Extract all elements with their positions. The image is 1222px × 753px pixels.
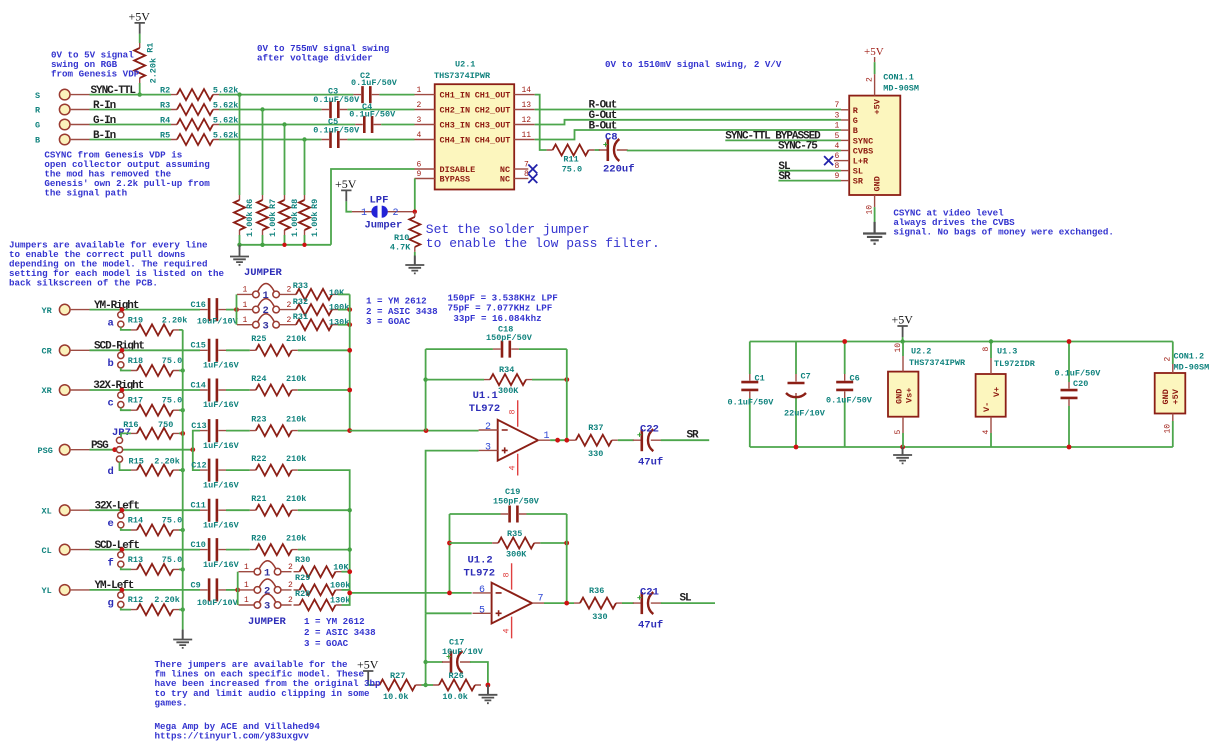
resistor R29 [294, 573, 351, 595]
svg-text:U2.2: U2.2 [911, 347, 931, 357]
node bottom jumper tap [235, 588, 240, 593]
svg-text:10uF/10V: 10uF/10V [442, 647, 484, 657]
svg-text:C13: C13 [191, 421, 206, 431]
node U1.3 rail [989, 339, 993, 343]
svg-text:0.1uF/50V: 0.1uF/50V [826, 396, 873, 406]
svg-text:3 = GOAC: 3 = GOAC [304, 638, 349, 649]
connector pin G [35, 119, 90, 131]
jumper 1 (left bank) [239, 561, 294, 580]
node PSG jumpers junction [112, 447, 117, 452]
pin 4 U1.3 bottom [982, 417, 991, 447]
svg-text:750: 750 [158, 420, 173, 430]
svg-text:R11: R11 [563, 155, 578, 165]
svg-text:JUMPER: JUMPER [248, 616, 287, 628]
pin 10 GND (bottom) [866, 176, 883, 214]
power rail bottom (power section) [750, 446, 1173, 448]
svg-text:4: 4 [835, 142, 840, 151]
svg-text:6: 6 [835, 152, 840, 161]
svg-text:330: 330 [592, 612, 607, 622]
svg-text:R31: R31 [293, 312, 308, 322]
svg-text:+5V: +5V [873, 98, 883, 114]
svg-text:CVBS: CVBS [853, 147, 873, 157]
wire C15 to R25 [226, 349, 250, 351]
ground CON1.1 [863, 222, 886, 244]
jumper a pads [108, 312, 124, 330]
svg-text:R2: R2 [160, 86, 170, 96]
wire BYPASS down to LPF node [414, 179, 416, 212]
svg-text:R6: R6 [245, 199, 255, 209]
svg-text:6: 6 [417, 160, 422, 169]
svg-text:7: 7 [538, 594, 544, 605]
svg-text:R1: R1 [146, 43, 156, 53]
wire C8 to CVBS pin (SYNC-75 net) [627, 150, 841, 152]
svg-text:75.0: 75.0 [162, 515, 182, 525]
capacitor C14 [191, 379, 240, 411]
jumper 3 (left bank) [239, 594, 294, 613]
resistor R4 [160, 116, 238, 131]
svg-text:75.0: 75.0 [562, 165, 582, 175]
svg-text:R17: R17 [128, 396, 143, 406]
wire R19 to bus [179, 329, 183, 331]
svg-text:R3: R3 [160, 101, 170, 111]
svg-text:SYNC-TTL BYPASSED: SYNC-TTL BYPASSED [725, 131, 821, 143]
svg-text:d: d [108, 466, 114, 478]
svg-text:B: B [35, 136, 40, 146]
svg-text:130k: 130k [329, 317, 349, 327]
node YR jumper-a junction [120, 307, 125, 312]
svg-text:YL: YL [42, 586, 52, 596]
wire R-Out [535, 109, 841, 111]
svg-text:JUMPER: JUMPER [244, 267, 283, 279]
svg-text:1uF/16V: 1uF/16V [203, 361, 240, 371]
capacitor C18 [486, 324, 533, 357]
svg-text:DISABLE: DISABLE [440, 165, 476, 175]
svg-text:10.0k: 10.0k [383, 692, 409, 702]
svg-text:2.20k: 2.20k [162, 315, 188, 325]
connector pin YR [42, 304, 90, 315]
svg-text:0.1uF/50V: 0.1uF/50V [728, 398, 775, 408]
capacitor C13 [191, 419, 239, 451]
svg-text:e: e [108, 518, 114, 530]
wire R36 to C21 [622, 602, 634, 604]
wire G row to R4 [90, 124, 172, 126]
wire C21 to SL [661, 602, 715, 604]
svg-text:3: 3 [264, 601, 270, 613]
svg-text:1: 1 [243, 316, 248, 325]
svg-text:U1.2: U1.2 [468, 555, 493, 567]
capacitor C4 [349, 102, 396, 133]
svg-text:R4: R4 [160, 116, 170, 126]
wire YL row to C9 [90, 589, 201, 591]
connector pin YL [42, 585, 90, 596]
svg-text:C17: C17 [449, 637, 464, 647]
node feedback left junction U1.1 [424, 428, 429, 433]
svg-text:2.20k: 2.20k [154, 595, 180, 605]
svg-text:7: 7 [835, 101, 840, 110]
svg-text:C11: C11 [191, 501, 206, 511]
pin 3 G [835, 111, 858, 126]
svg-text:R36: R36 [589, 586, 604, 596]
node C20 bottom rail [1067, 445, 1072, 450]
svg-text:9: 9 [417, 170, 422, 179]
wire G pulldown drop [284, 125, 286, 196]
svg-text:2: 2 [1164, 357, 1173, 362]
wire S pulldown drop [239, 95, 241, 195]
svg-text:from Genesis VDP: from Genesis VDP [51, 69, 140, 80]
svg-text:R32: R32 [293, 297, 308, 307]
wire C17 left [426, 661, 443, 663]
jumper 1 (right bank) [237, 283, 292, 302]
resistor R5 [160, 131, 238, 146]
wire +5V to CON1.1 pin2 [874, 62, 876, 74]
node G pulldown junction [282, 122, 286, 126]
svg-text:2.20k: 2.20k [154, 457, 180, 467]
svg-text:CH1_IN: CH1_IN [440, 91, 471, 101]
svg-text:1uF/16V: 1uF/16V [203, 400, 240, 410]
svg-text:100k: 100k [329, 302, 349, 312]
connector pin R [35, 104, 90, 116]
svg-text:PSG: PSG [38, 446, 53, 456]
svg-text:V-: V- [982, 402, 992, 412]
wire R17 to bus [179, 409, 183, 411]
node XL jumper-e junction [120, 508, 125, 513]
svg-text:47uf: 47uf [638, 619, 663, 631]
svg-text:C14: C14 [191, 380, 206, 390]
wire R14 to bus [179, 529, 183, 531]
wire R3 to C3 [219, 109, 321, 111]
svg-text:5: 5 [894, 430, 903, 435]
pin 3 CH3_IN [415, 116, 471, 131]
pin 13 CH2_OUT [475, 101, 535, 116]
svg-text:R25: R25 [251, 334, 266, 344]
resistor R20 [250, 534, 307, 556]
wire R29 to bus [342, 589, 350, 591]
wire C22 to SR [661, 439, 709, 441]
connector pin PSG [38, 444, 90, 455]
svg-text:after voltage divider: after voltage divider [257, 53, 373, 64]
node bus R14 [181, 528, 185, 532]
node bus R17 [181, 408, 185, 412]
capacitor C1 [728, 342, 775, 448]
capacitor C16 [191, 298, 239, 326]
svg-text:47uf: 47uf [638, 457, 663, 469]
wire R24 to bus [298, 389, 350, 391]
svg-text:S: S [35, 91, 40, 101]
svg-text:C15: C15 [191, 341, 206, 351]
wire +5V to rail [902, 337, 904, 342]
wire PSG up to C13 [193, 431, 200, 450]
svg-text:4: 4 [502, 628, 512, 633]
svg-text:210k: 210k [286, 534, 306, 544]
node bus R20 [348, 547, 352, 551]
resistor R33 [290, 281, 345, 300]
resistor R1 [134, 43, 158, 84]
ground pulldown rail [230, 247, 249, 265]
svg-text:B-Out: B-Out [589, 120, 617, 132]
svg-text:C1: C1 [755, 374, 765, 384]
pin 14 CH1_OUT [475, 86, 535, 101]
svg-text:150pF/50V: 150pF/50V [486, 333, 533, 343]
svg-text:1: 1 [264, 567, 270, 579]
resistor R37 [570, 423, 618, 459]
svg-text:a: a [108, 317, 115, 329]
wire C4 to pin3 [381, 124, 414, 126]
node C7 bottom rail [794, 445, 799, 450]
capacitor C3 [313, 87, 360, 118]
svg-text:3: 3 [485, 443, 491, 454]
svg-text:1.00k: 1.00k [310, 211, 320, 237]
svg-text:C9: C9 [191, 580, 201, 590]
svg-text:c: c [108, 398, 114, 410]
resistor R2 [160, 86, 238, 101]
ground R10 [405, 256, 424, 274]
wire rail to DISABLE [331, 169, 415, 245]
node rail R6 [237, 243, 241, 247]
wire C16 to jumper group [226, 309, 237, 311]
wire SL to connector [778, 170, 841, 172]
wire B pulldown drop [304, 140, 306, 196]
wire feedback left vertical U1.1 [425, 349, 427, 431]
wire jumper c to R17 [121, 408, 131, 411]
svg-text:+5V: +5V [129, 10, 151, 24]
svg-text:R: R [853, 106, 859, 116]
op-amp U1.2 TL972 [464, 555, 545, 639]
pin 6 DISABLE [415, 160, 476, 175]
svg-text:75.0: 75.0 [162, 396, 182, 406]
wire summing bus to U1.1 pin2 [350, 430, 479, 432]
wire +5V to LPF pin1 [346, 201, 352, 211]
connector pin S [35, 89, 90, 101]
svg-text:4: 4 [417, 131, 422, 140]
svg-text:2: 2 [288, 581, 293, 590]
wire R16 to bus [179, 432, 183, 434]
connector pin XR [42, 385, 90, 397]
capacitor C10 [191, 538, 240, 570]
wire R31 to bus [338, 324, 350, 326]
wire bias rail to C17 [425, 613, 427, 685]
node bus R18 [181, 368, 185, 372]
node R26 right [486, 683, 491, 688]
svg-text:NC: NC [500, 175, 510, 185]
capacitor C19 [493, 487, 540, 523]
wire B-Out [535, 130, 841, 140]
svg-text:B: B [853, 126, 858, 136]
node bus R31 [347, 322, 352, 327]
svg-text:Set the solder jumper: Set the solder jumper [426, 222, 590, 237]
svg-text:CH3_IN: CH3_IN [440, 121, 471, 131]
svg-text:1: 1 [243, 286, 248, 295]
wire R20 to bus [298, 549, 350, 551]
wire PSG row [90, 449, 193, 451]
node C20 top rail [1067, 339, 1072, 344]
svg-text:C22: C22 [640, 424, 659, 436]
node bus R16 [180, 431, 185, 436]
svg-text:https://tinyurl.com/y83uxgvv: https://tinyurl.com/y83uxgvv [155, 730, 310, 741]
capacitor C2 [351, 71, 398, 103]
svg-text:XL: XL [42, 506, 52, 516]
power +5V (CON1.1) [864, 46, 884, 62]
node B pulldown junction [302, 137, 306, 141]
wire R33 to bus [338, 293, 350, 295]
pin 9 SR [835, 172, 864, 187]
wire R15 to bus [179, 469, 183, 471]
wire C13 to R23 [226, 430, 250, 432]
wire R37 to C22 [618, 439, 634, 441]
svg-text:R33: R33 [293, 281, 308, 291]
node C6 top rail [842, 339, 847, 344]
svg-text:U2.1: U2.1 [455, 60, 475, 70]
node bus R32 [347, 307, 352, 312]
jumper LPF (solder jumper) [352, 194, 415, 231]
wire C9 to bottom jumper group [226, 589, 238, 591]
capacitor C5 [313, 117, 360, 148]
svg-text:1 = YM 2612: 1 = YM 2612 [304, 616, 365, 627]
jumper c pads [108, 392, 124, 410]
svg-text:G: G [853, 116, 858, 126]
svg-text:CH2_OUT: CH2_OUT [475, 106, 511, 116]
wire SR to connector [778, 180, 841, 182]
svg-text:R22: R22 [251, 454, 266, 464]
pin 2 +5V (top) [866, 74, 883, 114]
pin 11 CH4_OUT [475, 131, 535, 146]
svg-text:R24: R24 [251, 374, 266, 384]
capacitor C7 [784, 342, 826, 448]
wire U1.1 pin3 to bias rail [426, 451, 479, 614]
svg-text:6: 6 [479, 585, 485, 596]
svg-text:11: 11 [522, 131, 532, 140]
svg-text:LPF: LPF [370, 194, 389, 206]
jumper 2 (left bank) [239, 579, 294, 598]
node bus R30 [347, 569, 352, 574]
wire R25 to bus [298, 349, 350, 351]
node YL jumper-g junction [120, 588, 125, 593]
capacitor C22 47uf [633, 424, 663, 469]
resistor R19 [128, 315, 188, 335]
svg-text:12: 12 [522, 116, 532, 125]
node bus end U1.2 pin6 [347, 591, 352, 596]
svg-text:2: 2 [866, 77, 875, 82]
svg-text:C12: C12 [191, 461, 206, 471]
wire R1 to SYNC row [139, 83, 141, 95]
pin 9 BYPASS [415, 170, 471, 185]
svg-text:3: 3 [835, 111, 840, 120]
wire R30 to bus [342, 571, 350, 573]
wire CH1_OUT down to R11 [535, 95, 547, 150]
connector pin B [35, 134, 90, 146]
svg-text:2: 2 [417, 101, 422, 110]
svg-text:CH4_OUT: CH4_OUT [475, 136, 511, 146]
wire R4 to C4 [219, 124, 355, 126]
svg-text:CON1.1: CON1.1 [883, 73, 914, 83]
wire R10 to ground [414, 252, 416, 257]
svg-text:TL972: TL972 [469, 403, 501, 415]
svg-text:10.0k: 10.0k [442, 692, 468, 702]
wire R28 elbow to bus [342, 590, 350, 605]
svg-text:NC: NC [500, 165, 510, 175]
svg-text:signal. No bags of money were: signal. No bags of money were exchanged. [893, 227, 1114, 238]
svg-text:1: 1 [361, 208, 367, 219]
svg-text:8: 8 [982, 347, 991, 352]
power +5V (LPF) [335, 177, 357, 201]
svg-text:CH3_OUT: CH3_OUT [475, 121, 511, 131]
resistor R28 [294, 589, 351, 610]
svg-text:10uF/10V: 10uF/10V [197, 317, 239, 327]
wire C11 to R21 [226, 509, 250, 511]
node R35 right [564, 541, 569, 546]
resistor R31 [290, 312, 349, 330]
svg-text:R34: R34 [499, 365, 514, 375]
svg-text:+5V: +5V [335, 177, 357, 191]
wire jumper a to R19 [121, 327, 131, 330]
svg-text:C21: C21 [640, 586, 659, 598]
wire R13 to bus [179, 568, 183, 570]
svg-text:C20: C20 [1073, 379, 1088, 389]
svg-text:1: 1 [243, 301, 248, 310]
wire SYNC-TTL BYPASSED [725, 139, 841, 141]
jumper JP7 pads [112, 427, 131, 453]
power +5V (power section) [892, 313, 914, 338]
pin 8 NC [500, 170, 537, 185]
svg-text:3: 3 [263, 320, 269, 332]
svg-text:L+R: L+R [853, 157, 869, 167]
svg-text:C6: C6 [850, 374, 860, 384]
node output U1.1 b [564, 438, 569, 443]
svg-text:13: 13 [522, 101, 532, 110]
svg-text:R8: R8 [290, 199, 300, 209]
resistor R15 [129, 457, 180, 476]
svg-text:R5: R5 [160, 131, 170, 141]
svg-text:3 = GOAC: 3 = GOAC [366, 316, 411, 327]
resistor R36 [574, 586, 622, 622]
node rail R8 [282, 243, 286, 247]
wire bottom jumper left vertical [237, 572, 239, 605]
svg-text:C16: C16 [191, 300, 206, 310]
svg-text:2: 2 [485, 422, 491, 433]
svg-text:SYNC: SYNC [853, 137, 873, 147]
svg-text:R29: R29 [295, 573, 310, 583]
svg-text:R30: R30 [295, 555, 310, 565]
capacitor C8 220uf [599, 132, 635, 176]
svg-text:1uF/16V: 1uF/16V [203, 520, 240, 530]
wire pin6 wire to U1.2 [350, 592, 472, 594]
resistor R34 [426, 365, 567, 396]
svg-text:YR: YR [42, 306, 53, 316]
svg-text:220uf: 220uf [603, 164, 635, 176]
IC U1.3 TL972IDR (power) [976, 347, 1036, 417]
svg-text:150pF/50V: 150pF/50V [493, 496, 540, 506]
node LPF/R10/BYPASS junction [413, 210, 417, 214]
svg-text:2: 2 [287, 286, 292, 295]
svg-text:210k: 210k [286, 374, 306, 384]
pin 7 NC [500, 160, 537, 175]
capacitor C21 47uf [633, 586, 663, 631]
wire feedback left vertical U1.2 [449, 514, 451, 593]
svg-text:R16: R16 [123, 420, 138, 430]
wire XL row to C11 [90, 509, 201, 511]
wire R row to R3 [90, 109, 172, 111]
svg-text:4.7K: 4.7K [390, 242, 411, 252]
wire B row to R5 [90, 139, 172, 141]
svg-text:0.1uF/50V: 0.1uF/50V [313, 125, 360, 135]
resistor R12 [128, 595, 180, 615]
svg-text:SR: SR [778, 171, 791, 183]
wire +5V to R1 [139, 34, 141, 43]
resistor R30 [294, 555, 350, 577]
connector pin XL [42, 505, 90, 517]
svg-text:2 = ASIC 3438: 2 = ASIC 3438 [304, 627, 376, 638]
wire PSG down to C12 [193, 450, 200, 470]
wire R32 to bus [338, 309, 350, 311]
